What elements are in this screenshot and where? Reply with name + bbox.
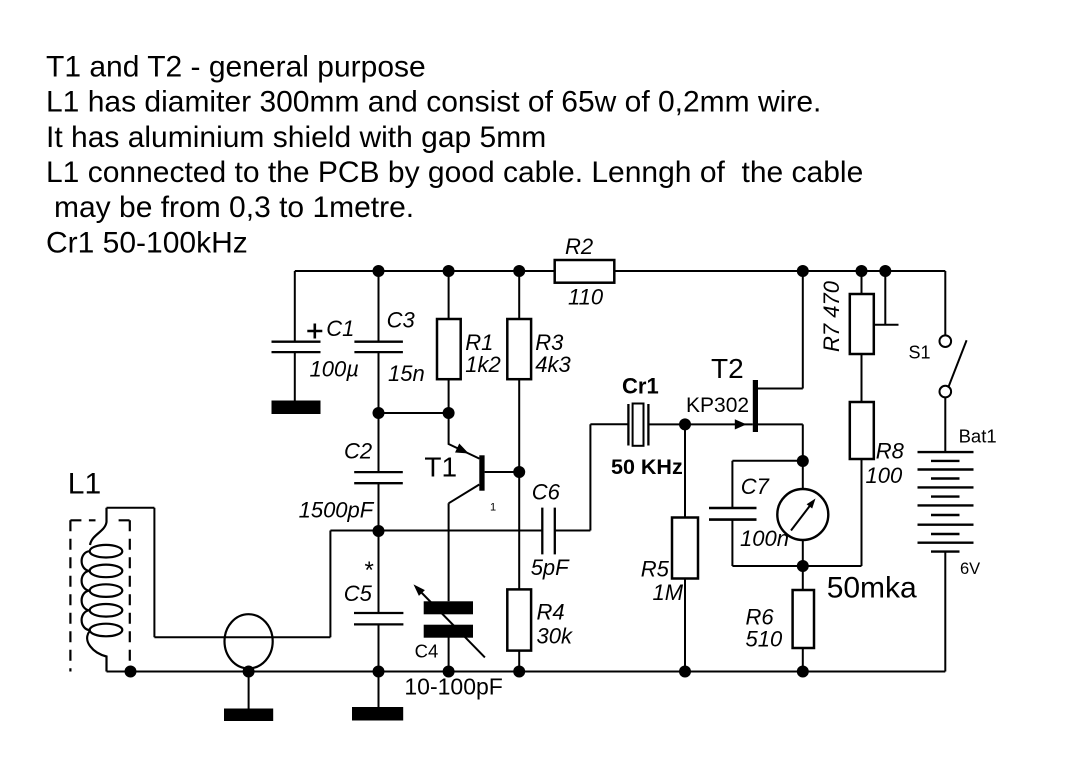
svg-text:*: * bbox=[365, 557, 374, 584]
transistor T1 base bar bbox=[479, 455, 484, 490]
junction top rail R7 bbox=[856, 265, 868, 277]
capacitor C3 bbox=[354, 342, 403, 352]
junction bottom rail C4 bbox=[443, 666, 455, 678]
wire C5 bottom bbox=[378, 624, 380, 671]
wire R3 top bbox=[518, 271, 520, 319]
wire switch top bbox=[944, 271, 946, 336]
crystal Cr1 bbox=[628, 404, 648, 446]
junction bottom rail cable bbox=[243, 666, 255, 678]
wire R6 bottom bbox=[802, 648, 804, 672]
wire T1 emitter down bbox=[448, 503, 450, 601]
svg-text:100n: 100n bbox=[740, 526, 789, 551]
svg-text:L1 has diamiter 300mm and cons: L1 has diamiter 300mm and consist of 65w… bbox=[46, 86, 821, 119]
transistor T1 arrow bbox=[456, 444, 468, 453]
svg-text:50mka: 50mka bbox=[827, 572, 917, 605]
svg-text:C4: C4 bbox=[415, 641, 439, 662]
svg-text:T1: T1 bbox=[424, 451, 457, 482]
svg-text:50 KHz: 50 KHz bbox=[611, 455, 683, 479]
junction meter top bbox=[797, 455, 809, 467]
junction top rail R3 bbox=[513, 265, 525, 277]
svg-text:5pF: 5pF bbox=[531, 555, 570, 580]
wire T2 source bbox=[758, 424, 803, 461]
svg-text:C5: C5 bbox=[344, 581, 373, 606]
meter M1 50mka bbox=[777, 489, 828, 540]
wire T2 drain bbox=[758, 271, 803, 389]
wire C4 bottom bbox=[448, 637, 450, 672]
wire C2 bottom bbox=[378, 483, 380, 530]
wire C7 bottom bbox=[732, 520, 861, 566]
svg-text:C6: C6 bbox=[532, 480, 561, 505]
resistor R7 bbox=[850, 294, 874, 354]
wire R6 top bbox=[802, 566, 804, 590]
svg-text:30k: 30k bbox=[537, 624, 573, 649]
svg-text:It has aluminium shield with g: It has aluminium shield with gap 5mm bbox=[46, 121, 546, 154]
transistor T2 channel bar bbox=[753, 380, 758, 432]
junction bottom rail shield bbox=[125, 666, 137, 678]
wire base node bbox=[379, 412, 449, 414]
wire C6 to crystal bbox=[555, 424, 629, 530]
wire C7 top bbox=[732, 461, 802, 508]
capacitor C1 bbox=[272, 342, 321, 352]
battery Bat1 bbox=[918, 452, 974, 551]
junction T1 collector R3 bbox=[513, 466, 525, 478]
junction base node right bbox=[443, 407, 455, 419]
junction top rail R1 bbox=[443, 265, 455, 277]
junction bottom rail C5 bbox=[373, 666, 385, 678]
resistor R2 bbox=[555, 260, 615, 283]
svg-text:KP302: KP302 bbox=[686, 394, 749, 417]
junction top rail T2 drain bbox=[797, 265, 809, 277]
svg-text:C7: C7 bbox=[741, 474, 770, 499]
svg-text:Cr1 50-100kHz: Cr1 50-100kHz bbox=[46, 226, 248, 259]
svg-text:R5: R5 bbox=[641, 556, 670, 581]
svg-text:may be from 0,3 to 1metre.: may be from 0,3 to 1metre. bbox=[54, 191, 414, 224]
wire C1 to ground bbox=[294, 352, 296, 400]
ground under C5 node bbox=[378, 672, 380, 708]
svg-text:6V: 6V bbox=[960, 560, 980, 578]
junction top rail tap bbox=[879, 265, 891, 277]
wire battery bottom bbox=[944, 552, 946, 672]
svg-text:R4: R4 bbox=[537, 600, 565, 625]
wire crystal to gate node bbox=[648, 423, 752, 425]
wire R7 wiper tap bbox=[874, 271, 899, 325]
svg-text:510: 510 bbox=[746, 627, 783, 652]
capacitor C6 bbox=[542, 508, 555, 555]
wire R3 node to R4 bbox=[518, 472, 520, 589]
capacitor C7 bbox=[709, 508, 757, 520]
junction gate node bbox=[679, 418, 691, 430]
transistor T2 gate arrow bbox=[735, 419, 747, 429]
wire R5 top bbox=[684, 424, 686, 517]
ground under C1 bbox=[272, 401, 321, 415]
transistor T1 bbox=[449, 413, 480, 459]
wire R1 top bbox=[448, 271, 450, 319]
svg-text:1: 1 bbox=[490, 502, 496, 514]
wire R7 top bbox=[861, 271, 863, 294]
wire switch to battery bbox=[944, 397, 946, 452]
wire R7 to R8 bbox=[861, 354, 863, 402]
ground under cable bbox=[248, 672, 250, 709]
junction base node left bbox=[373, 407, 385, 419]
capacitor C5 bbox=[354, 613, 403, 624]
switch S1 bbox=[940, 335, 952, 347]
inductor L1 shield dashed box bbox=[70, 520, 129, 671]
svg-text:S1: S1 bbox=[909, 343, 931, 363]
resistor R6 bbox=[793, 590, 814, 648]
wire top rail bbox=[295, 270, 946, 272]
wire meter bottom bbox=[802, 540, 804, 566]
wire R1 bottom bbox=[448, 379, 450, 413]
svg-text:T2: T2 bbox=[711, 353, 744, 384]
capacitor C2 bbox=[354, 472, 403, 483]
resistor R5 bbox=[672, 518, 698, 579]
junction meter bottom bbox=[797, 560, 809, 572]
resistor R3 bbox=[507, 319, 531, 379]
junction mid node bbox=[373, 525, 385, 537]
wire meter top bbox=[802, 461, 804, 489]
inductor L1 coil bbox=[82, 508, 123, 672]
svg-text:10-100pF: 10-100pF bbox=[404, 674, 502, 700]
wire R3 bottom bbox=[518, 379, 520, 472]
svg-text:C2: C2 bbox=[344, 439, 372, 464]
resistor R8 bbox=[850, 402, 874, 459]
wire bottom rail bbox=[107, 671, 946, 673]
wire C3 branch top bbox=[378, 271, 380, 342]
resistor R4 bbox=[507, 589, 531, 650]
capacitor C4 variable bbox=[424, 601, 473, 614]
svg-text:Cr1: Cr1 bbox=[622, 374, 659, 399]
wire R5 bottom bbox=[684, 579, 686, 672]
svg-text:T1 and T2 - general purpose: T1 and T2 - general purpose bbox=[46, 50, 426, 83]
junction bottom rail R5 bbox=[679, 666, 691, 678]
wire mid node to C6 bbox=[379, 530, 543, 532]
svg-text:R7 470: R7 470 bbox=[819, 280, 844, 352]
svg-text:1k2: 1k2 bbox=[465, 352, 500, 377]
svg-text:R2: R2 bbox=[565, 234, 593, 259]
svg-text:C1: C1 bbox=[326, 316, 354, 341]
wire T1 collector bbox=[485, 471, 520, 473]
junction bottom rail R6 bbox=[797, 666, 809, 678]
junction top rail C3 bbox=[373, 265, 385, 277]
wire C5 top bbox=[378, 531, 380, 614]
svg-text:C3: C3 bbox=[387, 308, 416, 333]
cable sleeve bbox=[225, 614, 273, 668]
C1 plus sign bbox=[307, 324, 322, 339]
wire C2 top bbox=[378, 413, 380, 472]
svg-text:110: 110 bbox=[568, 285, 604, 310]
svg-text:100µ: 100µ bbox=[310, 357, 359, 382]
svg-text:100: 100 bbox=[866, 463, 903, 488]
resistor R1 bbox=[437, 319, 461, 379]
wire R4 bottom bbox=[518, 651, 520, 672]
svg-text:Bat1: Bat1 bbox=[959, 426, 997, 447]
svg-text:L1: L1 bbox=[68, 467, 101, 500]
svg-text:1500pF: 1500pF bbox=[299, 498, 375, 523]
wire C3 bottom bbox=[378, 352, 380, 413]
junction bottom rail R4 bbox=[513, 666, 525, 678]
wire L1 to cable bbox=[107, 508, 379, 638]
wire C1 branch top bbox=[294, 271, 296, 342]
svg-text:1M: 1M bbox=[653, 580, 684, 605]
svg-text:L1 connected to the PCB by goo: L1 connected to the PCB by good cable. L… bbox=[46, 156, 863, 189]
svg-text:15n: 15n bbox=[388, 361, 425, 386]
wire R8 bottom bbox=[861, 459, 863, 566]
svg-text:4k3: 4k3 bbox=[535, 352, 571, 377]
svg-text:R8: R8 bbox=[876, 439, 905, 464]
